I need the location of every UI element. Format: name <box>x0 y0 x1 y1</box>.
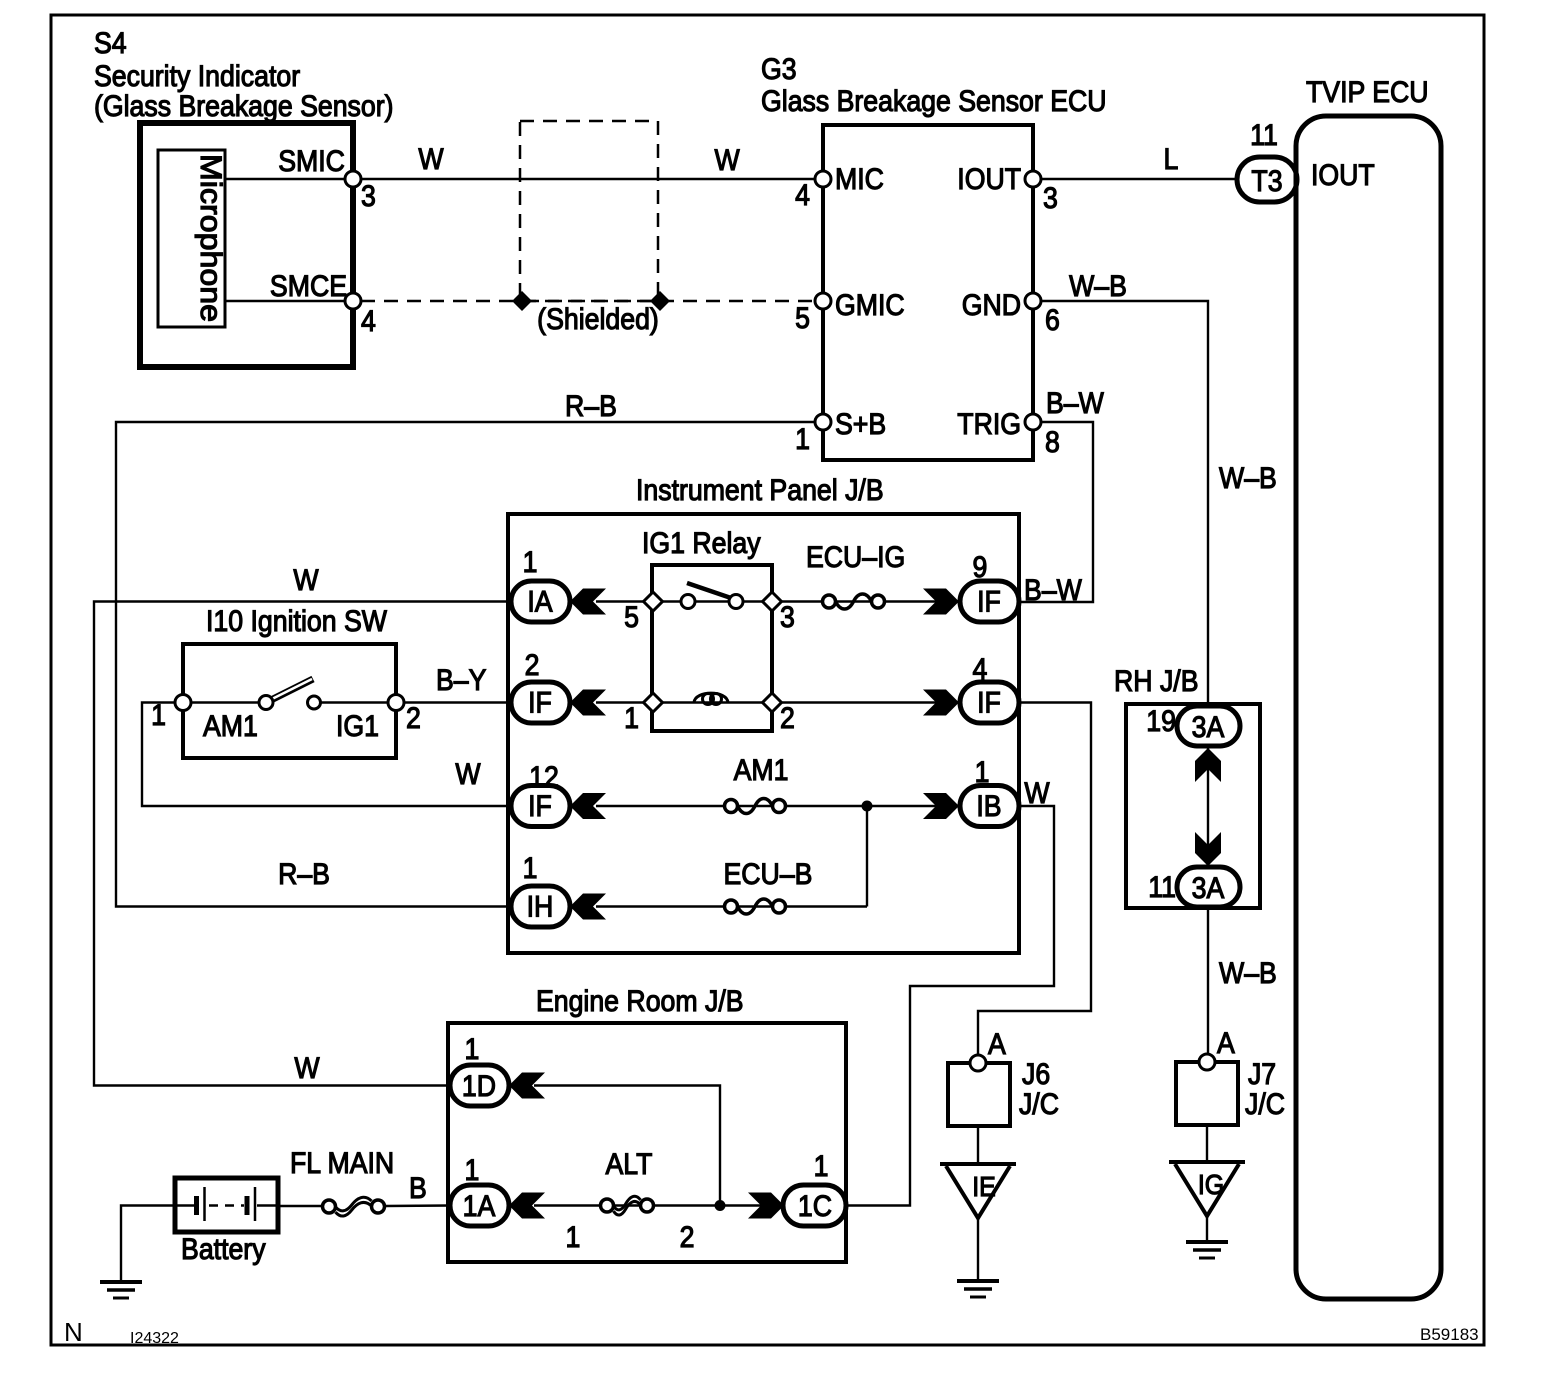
svg-text:A: A <box>1217 1027 1235 1061</box>
svg-text:1C: 1C <box>798 1190 832 1224</box>
pin 4 SMCE <box>270 270 376 339</box>
svg-text:GND: GND <box>962 289 1021 323</box>
svg-text:TRIG: TRIG <box>957 408 1021 442</box>
connector IH pin 1 <box>511 852 606 927</box>
svg-text:TVIP ECU: TVIP ECU <box>1306 76 1429 110</box>
svg-text:MIC: MIC <box>835 163 884 197</box>
connector IF pin 4 <box>923 653 1019 723</box>
junction node AM1/ECU-B <box>862 801 873 907</box>
relay switch contacts pins 5 and 3 <box>596 583 958 634</box>
svg-text:1: 1 <box>465 1154 480 1188</box>
svg-text:1: 1 <box>523 546 538 580</box>
pin 4 MIC <box>795 163 884 213</box>
svg-text:3: 3 <box>780 601 795 635</box>
svg-text:8: 8 <box>1045 426 1060 460</box>
svg-text:1: 1 <box>465 1033 480 1067</box>
svg-text:5: 5 <box>624 601 639 635</box>
ground point IE <box>940 1126 1016 1297</box>
pin 1 S+B <box>795 408 886 457</box>
svg-text:Glass Breakage Sensor ECU: Glass Breakage Sensor ECU <box>761 85 1106 119</box>
connector 3A pin 11 <box>1148 867 1240 907</box>
svg-text:SMIC: SMIC <box>278 145 345 179</box>
wire W-B from GND to RH J/B <box>1041 270 1277 708</box>
svg-text:(Glass Breakage Sensor): (Glass Breakage Sensor) <box>94 90 394 124</box>
svg-text:IG1 Relay: IG1 Relay <box>642 527 761 561</box>
svg-text:1: 1 <box>566 1221 581 1255</box>
svg-text:B–W: B–W <box>1024 574 1082 608</box>
svg-text:B59183: B59183 <box>1420 1325 1479 1344</box>
svg-text:1: 1 <box>795 423 810 457</box>
svg-text:2: 2 <box>680 1221 695 1255</box>
connector IF pin 12 <box>511 761 606 827</box>
fusible link ALT <box>534 1148 763 1255</box>
connector 1D pin 1 <box>450 1033 545 1106</box>
relay coil pins 1 and 2 <box>596 693 958 735</box>
connector 3A pin 19 <box>1146 705 1240 746</box>
component S4 Security Indicator (Glass Breakage Sensor) <box>94 27 394 367</box>
svg-text:IF: IF <box>977 686 1001 720</box>
svg-text:AM1: AM1 <box>734 754 789 788</box>
svg-text:SMCE: SMCE <box>270 270 347 304</box>
switch I10 Ignition SW <box>183 605 396 758</box>
svg-text:G3: G3 <box>761 53 797 87</box>
svg-text:1: 1 <box>523 852 538 886</box>
svg-text:2: 2 <box>525 649 540 683</box>
wire W from IB to 1C <box>846 777 1054 1206</box>
svg-text:ECU–B: ECU–B <box>723 858 812 892</box>
ECU TVIP <box>1296 76 1441 1299</box>
wire B-Y from ignition SW pin 2 to IF 2 <box>404 664 511 703</box>
svg-text:W: W <box>455 758 480 792</box>
svg-text:Instrument Panel J/B: Instrument Panel J/B <box>636 474 884 508</box>
svg-text:W–B: W–B <box>1069 270 1127 304</box>
wire shielded SMCE to GMIC <box>361 291 823 311</box>
svg-text:2: 2 <box>780 702 795 736</box>
pin 8 TRIG <box>957 408 1060 460</box>
svg-text:B: B <box>409 1172 427 1206</box>
svg-text:IOUT: IOUT <box>957 163 1021 197</box>
switch contacts pins 1 and 2 <box>151 679 421 735</box>
svg-text:1D: 1D <box>462 1070 496 1104</box>
svg-text:FL MAIN: FL MAIN <box>290 1147 394 1181</box>
wire B-W from TRIG to connector IF 9 <box>1021 387 1104 608</box>
wire microphone to pins <box>225 179 351 301</box>
microphone <box>158 150 227 327</box>
connector IF pin 9 <box>923 551 1019 622</box>
svg-text:IF: IF <box>528 790 552 824</box>
svg-text:1: 1 <box>814 1150 829 1184</box>
svg-text:AM1: AM1 <box>203 710 258 744</box>
svg-text:3: 3 <box>361 180 376 214</box>
svg-text:I24322: I24322 <box>130 1330 179 1347</box>
junction connector J7 pin A <box>1176 1027 1285 1125</box>
svg-text:N: N <box>64 1317 83 1347</box>
svg-text:A: A <box>988 1028 1006 1062</box>
fuse ECU-B <box>596 858 867 914</box>
pin 5 GMIC <box>795 289 905 336</box>
ECU G3 Glass Breakage Sensor ECU <box>761 53 1106 460</box>
pin 6 GND <box>962 289 1060 338</box>
svg-text:W: W <box>714 144 739 178</box>
svg-text:IH: IH <box>527 890 554 924</box>
shield box (Shielded) <box>520 121 659 336</box>
wire L from IOUT to T3 <box>1041 143 1237 179</box>
svg-text:11: 11 <box>1148 871 1176 905</box>
junction connector J6 pin A <box>948 1028 1059 1126</box>
svg-text:B–W: B–W <box>1046 387 1104 421</box>
svg-text:3A: 3A <box>1192 711 1225 745</box>
wire W-B from IF 4 to J6 <box>978 703 1091 1056</box>
svg-text:6: 6 <box>1045 304 1060 338</box>
svg-text:S+B: S+B <box>835 408 886 442</box>
junction block RH J/B <box>1114 665 1260 908</box>
ground point IG <box>1169 1125 1245 1258</box>
svg-text:IA: IA <box>527 585 552 619</box>
wire R-B from S+B to IH <box>116 390 815 907</box>
svg-text:11: 11 <box>1250 119 1278 153</box>
svg-text:4: 4 <box>795 179 810 213</box>
svg-text:IOUT: IOUT <box>1311 159 1375 193</box>
svg-text:5: 5 <box>795 302 810 336</box>
svg-text:IF: IF <box>528 686 552 720</box>
svg-text:W–B: W–B <box>1219 957 1277 991</box>
connector IA pin 1 <box>511 546 606 622</box>
wire from ALT junction to 1D <box>534 1086 720 1206</box>
svg-text:B–Y: B–Y <box>436 664 486 698</box>
svg-text:1A: 1A <box>463 1190 496 1224</box>
wire W from SMIC to MIC <box>361 143 823 179</box>
svg-text:W–B: W–B <box>1219 462 1277 496</box>
svg-text:1: 1 <box>624 702 639 736</box>
svg-text:2: 2 <box>406 702 421 736</box>
svg-text:IE: IE <box>972 1171 996 1203</box>
svg-text:W: W <box>418 143 443 177</box>
junction block Engine Room J/B <box>448 985 846 1262</box>
wire W from ignition SW pin 1 to IF 12 <box>142 703 511 807</box>
wire W-B from RH J/B to J7 <box>1208 907 1277 1054</box>
wire through RH J/B with arrows <box>1195 746 1221 867</box>
connector 1C pin 1 <box>748 1150 846 1226</box>
fusible link FL MAIN <box>278 1147 450 1216</box>
battery ground <box>100 1206 175 1299</box>
svg-text:IF: IF <box>977 585 1001 619</box>
svg-text:L: L <box>1164 143 1179 177</box>
battery <box>175 1178 278 1266</box>
svg-text:IG: IG <box>1198 1169 1224 1201</box>
fuse AM1 <box>596 754 958 814</box>
svg-text:S4: S4 <box>94 27 127 61</box>
svg-text:W: W <box>293 564 318 598</box>
junction node ALT <box>715 1200 726 1211</box>
svg-text:IG1: IG1 <box>336 710 379 744</box>
wire W from IA to 1D <box>94 564 511 1086</box>
connector 1A pin 1 <box>450 1154 545 1226</box>
svg-text:4: 4 <box>361 305 376 339</box>
svg-text:T3: T3 <box>1251 165 1282 199</box>
connector T3 pin 11 <box>1237 119 1297 202</box>
svg-text:ALT: ALT <box>605 1148 652 1182</box>
svg-text:Battery: Battery <box>181 1233 266 1267</box>
svg-text:J6: J6 <box>1022 1058 1050 1092</box>
svg-text:IB: IB <box>976 790 1001 824</box>
junction block Instrument Panel J/B <box>508 474 1019 953</box>
svg-text:RH J/B: RH J/B <box>1114 665 1199 699</box>
svg-text:J/C: J/C <box>1019 1088 1059 1122</box>
svg-text:J7: J7 <box>1248 1058 1276 1092</box>
svg-text:R–B: R–B <box>565 390 617 424</box>
relay IG1 <box>642 527 772 731</box>
svg-text:R–B: R–B <box>278 858 330 892</box>
svg-text:GMIC: GMIC <box>835 289 905 323</box>
connector IB pin 1 <box>923 756 1019 827</box>
svg-text:W: W <box>1024 777 1049 811</box>
fuse ECU-IG <box>806 541 905 609</box>
svg-text:3A: 3A <box>1192 872 1225 906</box>
svg-text:Security Indicator: Security Indicator <box>94 60 300 94</box>
svg-text:I10 Ignition SW: I10 Ignition SW <box>206 605 387 639</box>
svg-text:W: W <box>294 1052 319 1086</box>
svg-text:(Shielded): (Shielded) <box>537 303 659 337</box>
pin 3 SMIC <box>278 145 376 214</box>
svg-text:Microphone: Microphone <box>194 154 227 322</box>
connector IF pin 2 <box>511 649 606 723</box>
svg-text:J/C: J/C <box>1245 1088 1285 1122</box>
svg-text:3: 3 <box>1043 182 1058 216</box>
svg-text:19: 19 <box>1146 705 1176 739</box>
svg-text:ECU–IG: ECU–IG <box>806 541 905 575</box>
pin 3 IOUT <box>957 163 1058 216</box>
svg-text:Engine Room J/B: Engine Room J/B <box>536 985 744 1019</box>
